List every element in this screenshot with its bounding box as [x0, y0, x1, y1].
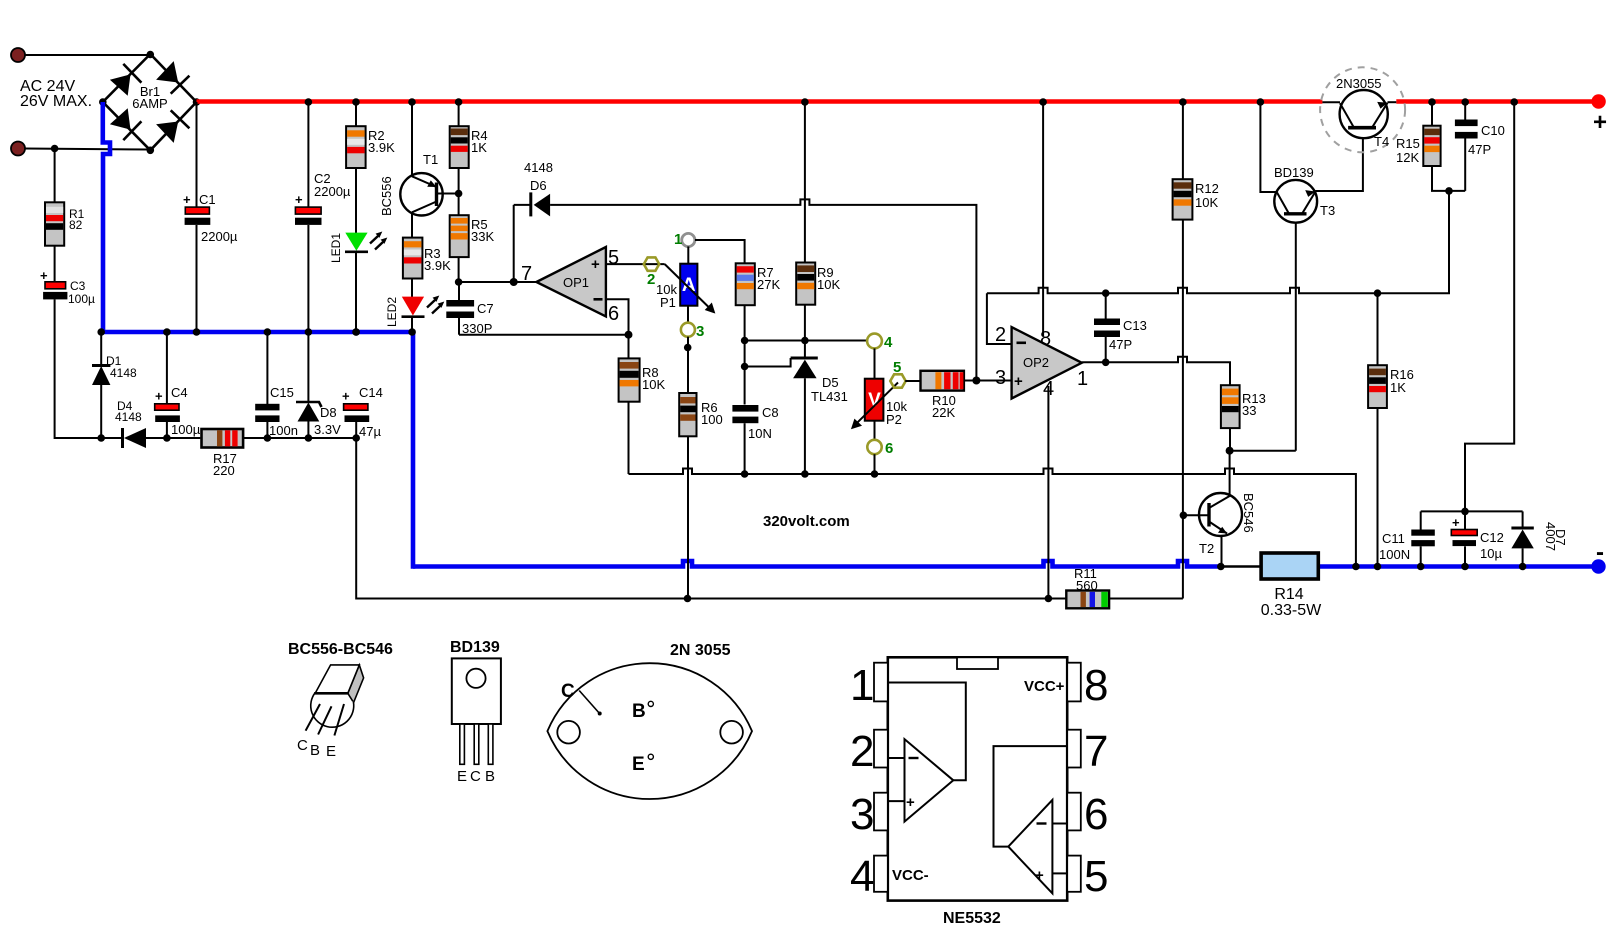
svg-text:6: 6	[608, 303, 619, 325]
svg-text:47P: 47P	[1109, 337, 1132, 352]
svg-text:C: C	[297, 737, 308, 754]
resistor R1 82	[45, 202, 64, 245]
resistor R11 560	[1066, 591, 1183, 609]
svg-text:560: 560	[1076, 578, 1098, 593]
svg-text:47µ: 47µ	[359, 424, 381, 439]
svg-text:8: 8	[1084, 661, 1108, 710]
negative rail (blue) vertical at x=413	[411, 330, 416, 569]
negative rail (blue) upper horizontal	[101, 330, 416, 335]
wire C14 node down to bottom negative bus	[356, 438, 687, 599]
node C13 bottom on output wire	[1102, 359, 1110, 367]
wire C7 bottom to OP1 pin6	[459, 334, 629, 336]
node bridge right	[193, 98, 201, 106]
zener diode D8 3.3V	[296, 328, 322, 442]
svg-text:C12: C12	[1480, 530, 1504, 545]
svg-text:4148: 4148	[524, 160, 553, 175]
wire OP1 pin5 to P1 wiper	[606, 263, 665, 265]
svg-text:LED1: LED1	[329, 233, 343, 263]
svg-text:2: 2	[850, 727, 874, 776]
svg-text:E: E	[632, 754, 645, 775]
svg-text:100µ: 100µ	[68, 292, 95, 306]
capacitor C3 100u	[40, 268, 67, 299]
node R13 bottom / T3 base / T2 collector	[1226, 447, 1234, 455]
svg-text:B: B	[485, 768, 495, 785]
node bridge top	[147, 51, 155, 59]
wire T2 node to R14	[1221, 565, 1262, 568]
wire C3 to D4 row	[55, 299, 123, 438]
svg-text:1: 1	[850, 661, 874, 710]
feedback wire OP2 pin2 (with hops)	[987, 191, 1449, 293]
resistor R2 3.9K	[346, 98, 366, 168]
diode D4 4148	[121, 428, 200, 448]
node OP2 pin4 on bus	[1045, 595, 1053, 603]
node D6 cathode junction	[510, 278, 518, 286]
capacitor C15 100n	[255, 328, 279, 442]
svg-text:26V MAX.: 26V MAX.	[20, 93, 92, 110]
connector ring 4	[867, 334, 882, 349]
diode D7 4007	[1511, 511, 1533, 570]
node C12 top	[1461, 508, 1469, 516]
svg-text:10K: 10K	[642, 377, 665, 392]
resistor R13 33	[1221, 385, 1240, 451]
transistor T4 2N3055 (series pass)	[1320, 67, 1405, 152]
connector ring 5	[890, 374, 905, 387]
svg-text:C8: C8	[762, 405, 779, 420]
op-amp A inside NE5532	[905, 739, 954, 822]
transistor T3 BD139 (NPN driver)	[1257, 98, 1363, 223]
svg-text:4: 4	[884, 334, 893, 351]
svg-text:VCC-: VCC-	[892, 867, 929, 884]
svg-text:R14: R14	[1274, 586, 1303, 603]
wire T3 base horizontal	[1230, 450, 1296, 452]
connector ring 3	[687, 306, 689, 323]
output terminal +	[1591, 94, 1605, 108]
negative rail (blue) lower horizontal to T2 node	[413, 561, 1221, 567]
svg-text:5: 5	[1084, 852, 1108, 901]
transistor T2 BC546 (NPN)	[1180, 451, 1242, 571]
analog ground wire y=474 (with hops over R6 and OP2 pin4)	[629, 469, 1356, 567]
svg-text:+: +	[40, 268, 48, 283]
svg-text:1K: 1K	[471, 140, 487, 155]
svg-text:+: +	[1452, 515, 1460, 530]
resistor R12 10K	[1173, 98, 1193, 598]
wire AC1 to bridge	[25, 54, 150, 56]
svg-text:R12: R12	[1195, 181, 1219, 196]
svg-text:C13: C13	[1123, 318, 1147, 333]
svg-text:C10: C10	[1481, 123, 1505, 138]
node bridge left	[99, 98, 107, 106]
bridge rectifier Br1	[103, 54, 197, 150]
svg-text:2: 2	[647, 271, 655, 288]
capacitor C2 2200u	[295, 98, 322, 332]
svg-text:10N: 10N	[748, 426, 772, 441]
LED LED2 (red)	[402, 279, 445, 336]
svg-text:T2: T2	[1199, 541, 1214, 556]
svg-text:2N3055: 2N3055	[1336, 76, 1382, 91]
resistor R4 1K	[450, 98, 469, 215]
wire OP2 pin8 from positive rail	[1039, 98, 1047, 336]
svg-text:2N 3055: 2N 3055	[670, 642, 731, 659]
svg-text:12K: 12K	[1396, 150, 1419, 165]
svg-text:E: E	[326, 743, 336, 760]
wire D6 cathode vertical	[513, 205, 515, 282]
capacitor C7 330P	[446, 282, 474, 335]
svg-text:P1: P1	[660, 295, 676, 310]
svg-text:3.3V: 3.3V	[314, 422, 341, 437]
svg-text:C14: C14	[359, 385, 383, 400]
svg-text:4: 4	[850, 852, 874, 901]
node pin6 / C7 / R8	[625, 331, 633, 339]
resistor R8 10K	[619, 335, 640, 474]
svg-text:320volt.com: 320volt.com	[763, 513, 850, 530]
svg-text:100N: 100N	[1379, 547, 1410, 562]
svg-text:3.9K: 3.9K	[424, 258, 451, 273]
svg-text:10µ: 10µ	[1480, 546, 1502, 561]
svg-text:C1: C1	[199, 192, 216, 207]
potentiometer P1 10k (A)	[665, 246, 714, 312]
positive rail (red) left section	[197, 99, 1323, 104]
capacitor C12 10u	[1451, 511, 1477, 570]
negative rail (blue) after R14 to terminal	[1318, 564, 1592, 569]
svg-text:4148: 4148	[115, 410, 142, 424]
svg-text:220: 220	[213, 463, 235, 478]
svg-text:100µ: 100µ	[171, 422, 201, 437]
svg-text:C7: C7	[477, 301, 494, 316]
resistor R15 12K	[1423, 98, 1465, 191]
svg-text:OP2: OP2	[1023, 355, 1049, 370]
wire AC2 to bridge	[25, 149, 150, 150]
capacitor C8 10N	[732, 405, 758, 474]
capacitor C13 47P	[1094, 293, 1120, 362]
svg-text:C15: C15	[270, 385, 294, 400]
svg-text:1: 1	[1077, 368, 1088, 390]
svg-text:6: 6	[885, 440, 893, 457]
svg-text:10K: 10K	[817, 277, 840, 292]
node R7/C8 line A	[741, 337, 749, 345]
svg-text:6AMP: 6AMP	[132, 96, 167, 111]
wire R10 to OP2 pin3	[964, 380, 1012, 382]
svg-text:TL431: TL431	[811, 389, 848, 404]
capacitor C10 47P	[1455, 98, 1478, 191]
IC pinout NE5532 (DIP-8)	[850, 657, 1108, 901]
svg-text:10K: 10K	[1195, 195, 1218, 210]
wire D6 anode to OP2 pin3 (with hop over R9 column)	[550, 199, 976, 380]
wire OP1 pin7	[459, 281, 537, 283]
svg-text:BD139: BD139	[450, 639, 500, 656]
svg-text:2: 2	[995, 324, 1006, 346]
connector ring 6	[874, 421, 876, 440]
svg-text:+: +	[155, 389, 163, 404]
svg-text:22K: 22K	[932, 405, 955, 420]
wire R6 bottom to negative bus (passes under y=474 wire)	[687, 436, 689, 598]
svg-text:+: +	[183, 192, 191, 207]
wire ring3 to R6	[687, 337, 689, 393]
svg-text:C4: C4	[171, 385, 188, 400]
LED LED1 (green)	[345, 168, 387, 336]
svg-text:B: B	[632, 701, 646, 722]
svg-text:C11: C11	[1382, 531, 1405, 546]
wire R17 to C14 column	[243, 437, 356, 439]
node R15/C10 bottom	[1445, 187, 1453, 195]
resistor R9 10K	[796, 98, 815, 358]
wire R1 top	[54, 149, 56, 203]
resistor R10 22K	[921, 371, 964, 391]
resistor R5 33K	[450, 215, 469, 286]
svg-text:0.33-5W: 0.33-5W	[1261, 602, 1322, 619]
svg-text:-: -	[1596, 539, 1604, 566]
svg-text:D8: D8	[320, 405, 337, 420]
capacitor C1 2200u	[183, 102, 210, 336]
connector ring 2	[644, 257, 659, 270]
svg-text:7: 7	[1084, 727, 1108, 776]
output terminal -	[1591, 559, 1605, 573]
wire bus to R11	[688, 598, 1067, 600]
svg-text:T3: T3	[1320, 203, 1335, 218]
negative wire (blue) from bridge with jog	[103, 102, 110, 332]
resistor R7 27K	[736, 263, 755, 404]
svg-text:33: 33	[1242, 403, 1256, 418]
wire TL431 ref net (line A) to ring4	[745, 340, 867, 342]
svg-text:D5: D5	[822, 375, 839, 390]
resistor R17 220	[202, 429, 244, 448]
svg-text:T4: T4	[1374, 134, 1389, 149]
op-amp OP2	[987, 293, 1082, 398]
potentiometer P2 10k (V)	[853, 348, 899, 427]
svg-text:BD139: BD139	[1274, 165, 1314, 180]
svg-text:+: +	[1593, 109, 1607, 136]
wire TL431 ref bend (line B)	[745, 358, 791, 367]
svg-text:D6: D6	[530, 178, 547, 193]
wire R1 to C3	[54, 246, 56, 282]
svg-text:BC556-BC546: BC556-BC546	[288, 641, 393, 658]
svg-text:27K: 27K	[757, 277, 780, 292]
svg-text:OP1: OP1	[563, 275, 589, 290]
svg-text:3: 3	[696, 323, 704, 340]
capacitor C14 47u	[342, 328, 369, 442]
svg-text:R15: R15	[1396, 136, 1420, 151]
node D5 anode	[801, 470, 809, 478]
diode D1 4148	[92, 328, 110, 442]
resistor R14 (0.33 ohm 5W)	[1261, 553, 1318, 579]
connector ring 1	[682, 233, 695, 246]
input terminal AC2	[11, 142, 25, 156]
svg-text:2200µ: 2200µ	[314, 184, 351, 199]
svg-text:8: 8	[1040, 328, 1051, 350]
svg-text:5: 5	[608, 247, 619, 269]
svg-text:P2: P2	[886, 412, 902, 427]
wire OP2 output pin1 to R13 (hop over R12 column)	[1082, 357, 1230, 385]
positive rail (red) right section	[1396, 99, 1592, 104]
svg-text:1: 1	[674, 231, 682, 248]
svg-text:T1: T1	[423, 152, 438, 167]
node AC2 / R1	[51, 145, 59, 153]
output filter top bus	[1421, 510, 1523, 512]
wire OP2 pin4 down	[1047, 386, 1049, 599]
node R7/C8 line B	[741, 363, 749, 371]
node C13 top	[1102, 289, 1110, 297]
svg-text:3: 3	[850, 790, 874, 839]
svg-text:82: 82	[69, 218, 83, 232]
op-amp B inside NE5532	[1008, 800, 1052, 894]
diode D6 4148	[514, 192, 550, 216]
svg-text:BC556: BC556	[379, 176, 394, 216]
svg-text:LED2: LED2	[385, 297, 399, 327]
svg-text:3.9K: 3.9K	[368, 140, 395, 155]
wire T3 base vertical (hop at feedback wire)	[1295, 216, 1297, 451]
svg-text:C: C	[561, 681, 575, 702]
svg-text:C: C	[470, 768, 481, 785]
svg-text:+: +	[906, 794, 915, 811]
wire OP1 pin6	[606, 299, 629, 335]
svg-text:3: 3	[995, 367, 1006, 389]
svg-text:+: +	[1035, 867, 1044, 884]
node R6 bottom on negative bus	[684, 595, 692, 603]
svg-text:+: +	[342, 389, 350, 404]
svg-text:+: +	[591, 256, 600, 273]
node bridge bottom	[147, 147, 155, 155]
node C8 bottom	[741, 470, 749, 478]
svg-text:6: 6	[1084, 790, 1108, 839]
svg-text:C3: C3	[70, 279, 86, 293]
wire positive rail down to output filter bus	[1465, 98, 1518, 511]
svg-text:1K: 1K	[1390, 380, 1406, 395]
svg-text:VCC+: VCC+	[1024, 678, 1065, 695]
svg-text:2200µ: 2200µ	[201, 229, 238, 244]
capacitor C4 100u	[155, 328, 180, 442]
svg-text:B: B	[310, 742, 320, 759]
svg-text:100n: 100n	[269, 423, 298, 438]
node R16 top	[1374, 289, 1382, 297]
capacitor C11 100N	[1411, 511, 1435, 570]
resistor R16 1K	[1368, 293, 1387, 570]
svg-text:33K: 33K	[471, 229, 494, 244]
input terminal AC1	[11, 48, 25, 62]
resistor R3 3.9K	[403, 238, 423, 279]
wire ring1 to R7	[695, 240, 745, 263]
op-amp OP1	[536, 247, 606, 317]
svg-text:+: +	[1014, 373, 1023, 390]
svg-text:D7: D7	[1553, 529, 1568, 546]
svg-text:47P: 47P	[1468, 142, 1491, 157]
svg-text:NE5532: NE5532	[943, 910, 1001, 927]
resistor R6 100	[679, 393, 696, 436]
svg-text:5: 5	[893, 359, 901, 376]
shunt reference D5 TL431	[791, 358, 818, 474]
svg-text:4148: 4148	[110, 366, 137, 380]
transistor T1 BC556 (PNP)	[400, 98, 458, 237]
svg-text:+: +	[295, 192, 303, 207]
svg-text:E: E	[457, 768, 467, 785]
wire ring5 to R10	[905, 380, 920, 382]
svg-text:7: 7	[521, 263, 532, 285]
svg-text:100: 100	[701, 412, 723, 427]
svg-text:BC546: BC546	[1241, 493, 1256, 533]
